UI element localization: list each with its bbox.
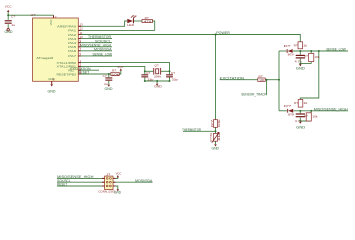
svg-text:1u: 1u [11, 23, 15, 27]
svg-text:GND: GND [212, 147, 220, 151]
svg-text:C?: C? [171, 71, 175, 75]
svg-text:BAT54: BAT54 [288, 113, 294, 117]
svg-text:J?: J? [106, 172, 110, 176]
svg-text:R?: R? [294, 101, 298, 105]
svg-text:CONN_03X2: CONN_03X2 [98, 190, 115, 194]
svg-text:GND: GND [5, 30, 14, 34]
svg-text:PA6: PA6 [68, 49, 76, 53]
svg-text:1u: 1u [104, 82, 108, 86]
svg-text:D?: D? [133, 15, 137, 19]
svg-text:4.7u: 4.7u [295, 119, 302, 123]
svg-text:100: 100 [259, 78, 264, 82]
svg-text:GND: GND [154, 85, 162, 89]
svg-text:VCC: VCC [49, 19, 53, 26]
svg-text:10k: 10k [314, 55, 319, 59]
svg-text:1k: 1k [303, 101, 308, 105]
svg-text:THERMISTOR: THERMISTOR [182, 128, 201, 132]
svg-text:10k: 10k [112, 72, 120, 76]
svg-text:RESET/PB3: RESET/PB3 [57, 72, 77, 76]
svg-text:EXCITATION: EXCITATION [220, 76, 245, 80]
svg-text:16MHz: 16MHz [154, 74, 161, 78]
svg-text:4.7u: 4.7u [295, 59, 302, 63]
svg-text:C?: C? [304, 114, 308, 118]
svg-text:VCC: VCC [117, 65, 124, 69]
svg-text:10k: 10k [312, 114, 317, 118]
svg-text:BAT54: BAT54 [288, 53, 294, 57]
svg-text:SENSOR_TRACK: SENSOR_TRACK [241, 93, 267, 97]
svg-text:R?: R? [294, 43, 298, 47]
svg-text:R?: R? [210, 119, 214, 127]
svg-text:470: 470 [144, 19, 152, 23]
svg-text:Q?: Q? [155, 64, 159, 68]
svg-text:1k: 1k [217, 132, 221, 141]
svg-text:GND: GND [296, 67, 306, 71]
svg-text:MOSI/SDA: MOSI/SDA [135, 179, 153, 183]
svg-text:MISO/SENSE_HIGH: MISO/SENSE_HIGH [314, 107, 348, 111]
svg-text:PA7: PA7 [68, 54, 76, 58]
svg-text:10k: 10k [217, 119, 221, 128]
svg-text:C?: C? [304, 54, 308, 58]
svg-text:33p: 33p [147, 77, 153, 81]
svg-text:C?: C? [103, 74, 107, 78]
svg-text:1k: 1k [303, 43, 308, 47]
svg-text:POWER: POWER [216, 31, 230, 35]
svg-text:RESET: RESET [57, 183, 68, 187]
svg-text:SENSE_LOW: SENSE_LOW [326, 48, 346, 52]
svg-text:D?: D? [284, 44, 291, 48]
svg-text:GND: GND [48, 89, 57, 93]
svg-text:ATmega16: ATmega16 [36, 56, 53, 60]
svg-text:D?: D? [284, 104, 291, 108]
svg-text:SENSE_LOW: SENSE_LOW [93, 53, 113, 57]
svg-text:C?: C? [146, 71, 150, 75]
svg-text:33p: 33p [172, 77, 178, 81]
svg-text:MOSI/SDA: MOSI/SDA [94, 47, 112, 51]
svg-text:C?: C? [11, 14, 15, 18]
svg-text:GND: GND [296, 125, 306, 129]
svg-text:LED: LED [127, 23, 135, 27]
svg-text:U?: U? [31, 13, 36, 17]
svg-text:KTY81: KTY81 [209, 132, 213, 141]
svg-text:VCC: VCC [5, 4, 12, 8]
svg-text:GND: GND [105, 87, 114, 91]
svg-text:VCC: VCC [116, 171, 122, 175]
